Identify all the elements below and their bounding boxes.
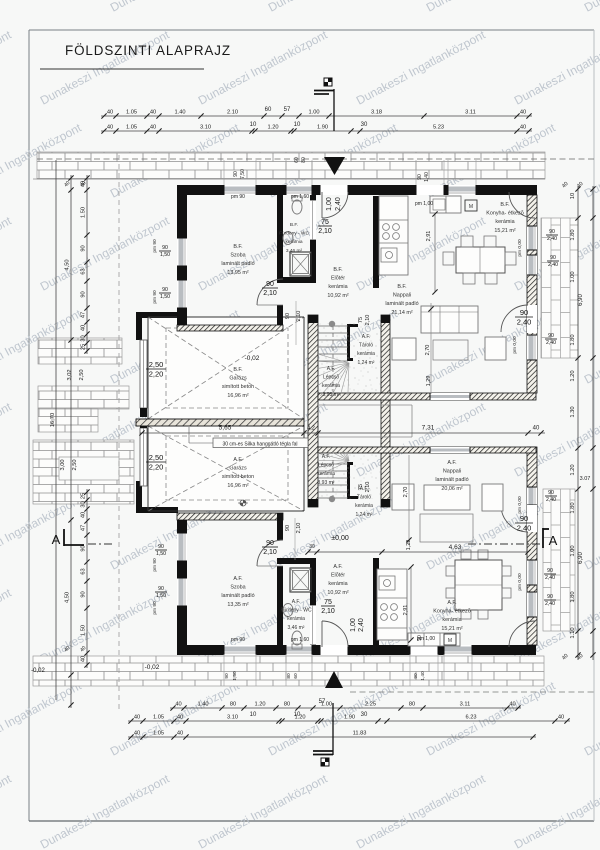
svg-text:40: 40 [107,125,113,131]
svg-text:3,46 m²: 3,46 m² [286,248,303,254]
svg-text:40: 40 [81,512,87,518]
svg-text:B.F.: B.F. [500,202,509,208]
svg-text:3,46 m²: 3,46 m² [288,625,305,631]
svg-text:pm 0,00: pm 0,00 [517,496,523,514]
svg-text:40: 40 [520,110,526,116]
svg-text:1.20: 1.20 [254,702,265,708]
svg-text:±0,00: ±0,00 [331,535,349,542]
svg-text:B.F.: B.F. [233,367,242,373]
svg-text:3,00: 3,00 [60,459,66,470]
svg-text:40: 40 [107,110,113,116]
svg-text:2,40: 2,40 [546,340,556,346]
svg-text:FÖLDSZINTI ALAPRAJZ: FÖLDSZINTI ALAPRAJZ [65,43,231,58]
svg-text:kerámia: kerámia [287,616,305,622]
svg-text:1.05: 1.05 [153,715,164,721]
svg-text:Tároló: Tároló [359,343,373,349]
svg-text:Lépcsõ: Lépcsõ [323,375,339,381]
svg-text:2,40: 2,40 [545,575,555,581]
svg-text:1.20: 1.20 [570,370,576,381]
svg-text:40: 40 [134,731,140,737]
svg-text:M: M [448,638,452,644]
svg-text:2,40: 2,40 [517,318,532,327]
svg-text:1.40: 1.40 [197,702,208,708]
svg-text:10: 10 [294,122,301,128]
svg-text:25: 25 [81,344,87,350]
svg-text:1,24 m²: 1,24 m² [358,360,375,366]
svg-text:63: 63 [81,568,87,574]
svg-text:3.18: 3.18 [371,110,382,116]
svg-text:2,10: 2,10 [263,549,277,556]
svg-text:30: 30 [309,544,315,550]
svg-text:simított beton: simított beton [222,474,254,480]
svg-text:A.F.: A.F. [362,334,371,340]
svg-text:kerámia: kerámia [357,351,375,357]
svg-text:90: 90 [548,333,554,339]
svg-text:1.80: 1.80 [570,591,576,602]
svg-text:A.F.: A.F. [327,366,336,372]
svg-text:Fürdeny - WC: Fürdeny - WC [280,608,312,614]
svg-text:2,20: 2,20 [149,370,164,379]
svg-text:90: 90 [81,245,87,251]
svg-text:30: 30 [81,501,87,507]
svg-text:pm 90: pm 90 [152,601,158,615]
svg-text:1.10: 1.10 [570,627,576,638]
svg-text:kerámia: kerámia [322,383,340,389]
svg-text:1,00: 1,00 [350,618,357,632]
svg-text:75: 75 [324,599,332,606]
svg-text:40: 40 [134,715,140,721]
svg-text:2,91: 2,91 [403,605,409,616]
svg-text:1.05: 1.05 [126,110,137,116]
svg-text:10: 10 [570,193,576,199]
svg-text:90: 90 [520,514,528,523]
svg-text:2,40: 2,40 [546,497,556,503]
svg-text:90: 90 [158,544,164,550]
svg-text:40: 40 [81,325,87,331]
svg-text:90: 90 [417,174,423,180]
svg-text:10: 10 [294,712,301,718]
svg-text:Nappali: Nappali [393,293,411,299]
svg-text:pm 1,00: pm 1,00 [415,201,433,207]
svg-text:1,50: 1,50 [160,252,170,258]
svg-text:90: 90 [550,255,556,261]
svg-text:10,92 m²: 10,92 m² [327,590,348,596]
svg-text:Garázs: Garázs [229,466,247,472]
svg-text:20,06 m²: 20,06 m² [441,486,462,492]
svg-text:A.F.: A.F. [233,457,242,463]
svg-text:90: 90 [233,171,239,177]
svg-text:simított beton: simított beton [222,384,254,390]
svg-text:A.F.: A.F. [333,564,342,570]
svg-text:2,10: 2,10 [365,482,371,493]
svg-text:2,40: 2,40 [548,262,558,268]
svg-text:B.F.: B.F. [233,244,242,250]
svg-text:2,10: 2,10 [365,315,371,326]
svg-text:laminált padló: laminált padló [221,261,254,267]
svg-text:6,90: 6,90 [578,294,584,306]
svg-text:30: 30 [81,335,87,341]
svg-text:1,24 m²: 1,24 m² [356,512,373,518]
svg-text:1.30: 1.30 [570,406,576,417]
svg-text:80: 80 [301,157,307,163]
svg-text:30: 30 [361,122,368,128]
svg-text:80: 80 [284,702,290,708]
svg-text:Szoba: Szoba [230,585,245,591]
svg-text:2,50: 2,50 [149,360,164,369]
svg-text:kerámia: kerámia [328,581,347,587]
svg-text:1.00: 1.00 [570,271,576,282]
svg-text:90: 90 [81,591,87,597]
svg-text:16,96 m²: 16,96 m² [227,483,248,489]
svg-text:4,50: 4,50 [65,259,71,270]
svg-text:40: 40 [150,125,156,131]
svg-text:A.F.: A.F. [447,460,456,466]
svg-text:2,91: 2,91 [426,231,432,242]
svg-text:40: 40 [520,125,526,131]
svg-text:90: 90 [266,281,274,288]
svg-text:Nappali: Nappali [443,469,461,475]
svg-text:1,29: 1,29 [426,376,432,387]
svg-text:1.80: 1.80 [570,229,576,240]
svg-text:90: 90 [413,673,419,679]
svg-text:1.00: 1.00 [570,545,576,556]
svg-text:90: 90 [547,594,553,600]
svg-text:2,40: 2,40 [335,197,342,211]
svg-text:90: 90 [266,540,274,547]
svg-text:pm 90: pm 90 [152,239,158,253]
svg-text:2,70: 2,70 [403,487,409,498]
svg-text:40: 40 [81,656,87,662]
svg-text:2,10: 2,10 [296,311,302,322]
svg-text:2,50: 2,50 [149,453,164,462]
svg-text:2,40: 2,40 [547,236,557,242]
svg-text:90: 90 [417,635,423,641]
svg-text:90: 90 [81,545,87,551]
svg-text:1.05: 1.05 [153,731,164,737]
svg-text:75: 75 [358,484,364,490]
svg-text:A.F.: A.F. [447,600,456,606]
svg-text:90: 90 [162,245,168,251]
svg-text:47: 47 [81,312,87,318]
svg-text:3.07: 3.07 [580,476,591,482]
svg-text:1.90: 1.90 [344,715,355,721]
svg-text:A: A [52,532,61,547]
svg-text:90: 90 [224,673,230,679]
svg-text:40: 40 [177,715,183,721]
svg-text:kerámia: kerámia [285,239,302,245]
svg-text:2.25: 2.25 [365,702,376,708]
svg-text:1,40: 1,40 [424,172,430,182]
svg-text:2,70: 2,70 [425,345,431,356]
svg-text:60: 60 [294,157,300,163]
svg-text:A.F.: A.F. [322,454,331,460]
svg-text:80: 80 [230,702,236,708]
svg-text:B.F.: B.F. [397,284,406,290]
svg-text:75: 75 [358,317,364,323]
svg-text:M: M [469,204,473,210]
svg-text:1.05: 1.05 [126,125,137,131]
svg-text:3.11: 3.11 [460,702,471,708]
svg-text:1.50: 1.50 [81,625,87,636]
svg-text:16,96 m²: 16,96 m² [227,393,248,399]
svg-text:1.80: 1.80 [570,502,576,513]
svg-text:90: 90 [520,308,528,317]
svg-text:Tároló: Tároló [357,495,371,501]
svg-text:2,40: 2,40 [358,618,365,632]
svg-text:90: 90 [81,291,87,297]
svg-text:Elõtér: Elõtér [331,276,345,282]
svg-text:90: 90 [285,313,291,319]
svg-text:B.F.: B.F. [333,267,342,273]
svg-text:2,20: 2,20 [149,463,164,472]
svg-text:pm 90: pm 90 [152,558,158,572]
svg-text:1.20: 1.20 [267,125,278,131]
svg-text:1.50: 1.50 [81,207,87,218]
svg-text:90: 90 [162,287,168,293]
svg-text:13,35 m²: 13,35 m² [227,602,248,608]
svg-text:kerámia: kerámia [328,284,347,290]
svg-text:15,21 m²: 15,21 m² [441,626,462,632]
svg-text:Garázs: Garázs [229,376,247,382]
svg-text:-0,02: -0,02 [245,355,260,362]
svg-text:A.F.: A.F. [292,599,301,605]
svg-text:kerámia: kerámia [442,617,461,623]
svg-text:3,93 m²: 3,93 m² [323,392,340,398]
svg-text:13,95 m²: 13,95 m² [227,270,248,276]
svg-text:4,50: 4,50 [65,592,71,603]
svg-text:25: 25 [81,493,87,499]
svg-text:40: 40 [509,702,515,708]
svg-text:40: 40 [533,426,540,432]
svg-text:Szoba: Szoba [230,253,245,259]
svg-text:80: 80 [286,673,292,679]
svg-text:10: 10 [250,122,257,128]
svg-text:kerámia: kerámia [317,471,335,477]
svg-text:5,65: 5,65 [219,425,232,432]
svg-text:pm 90: pm 90 [231,637,245,643]
svg-text:pm 1,60: pm 1,60 [291,194,309,200]
svg-text:2,10: 2,10 [321,608,335,615]
svg-text:Fürdeny - WC: Fürdeny - WC [279,231,309,237]
svg-text:2,50: 2,50 [72,459,78,470]
svg-text:1.20: 1.20 [570,464,576,475]
svg-text:1,40: 1,40 [420,671,426,681]
svg-text:1.80: 1.80 [570,334,576,345]
svg-text:16,70: 16,70 [50,413,56,427]
svg-text:75: 75 [321,219,329,226]
svg-text:2,40: 2,40 [517,524,532,533]
svg-text:60: 60 [265,107,272,113]
svg-text:5.23: 5.23 [433,125,444,131]
svg-text:1.40: 1.40 [174,110,185,116]
svg-text:11.83: 11.83 [353,731,367,737]
svg-text:90: 90 [547,568,553,574]
svg-text:3.11: 3.11 [465,110,476,116]
svg-text:7,50: 7,50 [240,169,246,179]
svg-text:-0,02: -0,02 [145,664,160,671]
svg-text:60: 60 [293,673,299,679]
svg-text:7,31: 7,31 [422,425,435,432]
svg-text:3.10: 3.10 [200,125,211,131]
svg-text:2,10: 2,10 [263,290,277,297]
svg-text:47: 47 [81,525,87,531]
svg-text:1,29: 1,29 [406,540,412,551]
svg-text:Konyha- étkezõ: Konyha- étkezõ [486,211,523,217]
svg-text:3,02: 3,02 [67,369,73,380]
svg-text:1,50: 1,50 [160,294,170,300]
svg-text:pm 0,00: pm 0,00 [517,573,523,591]
svg-text:1,50: 1,50 [156,593,166,599]
svg-text:63: 63 [81,268,87,274]
svg-text:40: 40 [177,731,183,737]
svg-text:30: 30 [361,712,368,718]
svg-text:6,90: 6,90 [578,552,584,564]
svg-text:kerámia: kerámia [495,219,514,225]
svg-text:57: 57 [319,699,326,705]
svg-text:3,93 m²: 3,93 m² [318,480,335,486]
svg-text:laminált padló: laminált padló [221,593,254,599]
svg-text:6.23: 6.23 [465,715,476,721]
svg-text:pm 1,60: pm 1,60 [291,637,309,643]
svg-text:laminált padló: laminált padló [435,477,468,483]
svg-text:pm 90: pm 90 [231,194,245,200]
svg-text:2,10: 2,10 [296,523,302,534]
svg-text:40: 40 [175,702,181,708]
svg-text:1,50: 1,50 [232,671,238,681]
svg-text:A: A [549,533,558,548]
svg-text:A.F.: A.F. [233,576,242,582]
svg-text:1.90: 1.90 [317,125,328,131]
svg-text:1.00: 1.00 [308,110,319,116]
svg-text:4,2: 4,2 [307,426,315,432]
svg-text:kerámia: kerámia [355,503,373,509]
svg-text:40: 40 [558,715,564,721]
svg-text:10,92 m²: 10,92 m² [327,293,348,299]
svg-text:2,10: 2,10 [318,228,332,235]
svg-text:30 cm-es Silka hanggátló tégla: 30 cm-es Silka hanggátló tégla fal [222,442,297,448]
svg-text:3.10: 3.10 [227,715,238,721]
svg-text:B.F.: B.F. [290,222,298,228]
svg-text:10: 10 [250,712,257,718]
svg-text:57: 57 [284,107,291,113]
svg-text:Konyha- étkezõ: Konyha- étkezõ [433,609,470,615]
svg-text:1,50: 1,50 [156,551,166,557]
svg-text:2.10: 2.10 [227,110,238,116]
svg-text:pm 0,00: pm 0,00 [512,336,518,354]
svg-text:2,50: 2,50 [79,369,85,380]
svg-text:2,40: 2,40 [545,601,555,607]
svg-text:90: 90 [285,525,291,531]
svg-text:21,14 m²: 21,14 m² [391,310,412,316]
svg-text:1,00: 1,00 [326,197,333,211]
svg-text:Lépcsõ: Lépcsõ [318,463,334,469]
svg-text:40: 40 [150,110,156,116]
svg-text:90: 90 [548,490,554,496]
svg-text:Elõtér: Elõtér [331,573,345,579]
svg-text:90: 90 [549,229,555,235]
svg-text:pm 90: pm 90 [152,290,158,304]
svg-text:80: 80 [409,702,415,708]
svg-text:90: 90 [158,586,164,592]
svg-text:15,21 m²: 15,21 m² [494,228,515,234]
svg-text:4,63: 4,63 [449,544,462,551]
svg-text:pm 0,00: pm 0,00 [517,239,523,257]
svg-text:laminált padló: laminált padló [385,301,418,307]
svg-text:-0,02: -0,02 [31,668,45,674]
